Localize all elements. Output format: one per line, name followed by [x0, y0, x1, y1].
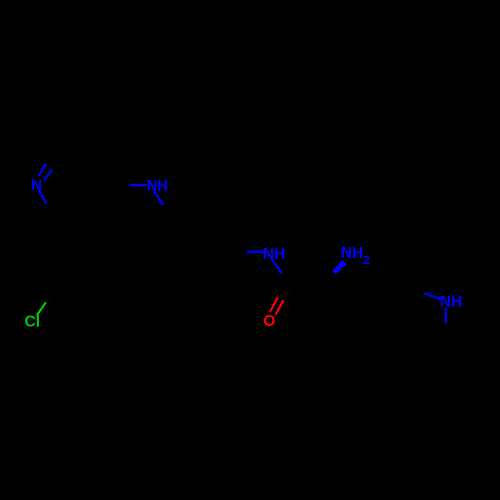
wire NH-phenyl bond stub [154, 192, 163, 206]
svg-text:O: O [263, 313, 275, 330]
wire C=O double bond left segment [270, 297, 278, 312]
wire N1-C8a bond stub [39, 191, 47, 204]
node O carbonyl oxygen label [263, 313, 275, 330]
node Cl chlorine label [25, 314, 41, 331]
svg-text:NH: NH [440, 294, 463, 311]
node NH2 primary amine label [341, 245, 371, 267]
wire NH-carbonyl bond stub [272, 259, 282, 273]
svg-text:NH: NH [147, 178, 168, 195]
wire indole C3a-NH bond stub [424, 293, 440, 299]
wire indole N-C7a bond stub [445, 308, 447, 323]
node N1 quinoline nitrogen label [31, 178, 42, 195]
node NH aniline secondary amine label [147, 178, 168, 195]
svg-text:NH: NH [341, 245, 364, 262]
svg-text:NH: NH [263, 246, 286, 263]
wire C=O double bond right segment [276, 300, 284, 314]
svg-text:2: 2 [363, 253, 370, 267]
wire C4-NH bond stub [130, 184, 147, 186]
wire Cl-ring bond stub [37, 302, 46, 315]
wire C2=N1 double bond outer segment [39, 164, 46, 176]
node NH indole nitrogen label [440, 294, 463, 311]
node NH amide label [263, 246, 286, 263]
wire C2=N1 double bond inner segment [44, 169, 52, 180]
wire wedge bond alphaC-NH2 [332, 260, 346, 274]
wire chain-NH amide bond stub [247, 251, 264, 253]
svg-text:Cl: Cl [25, 314, 41, 331]
